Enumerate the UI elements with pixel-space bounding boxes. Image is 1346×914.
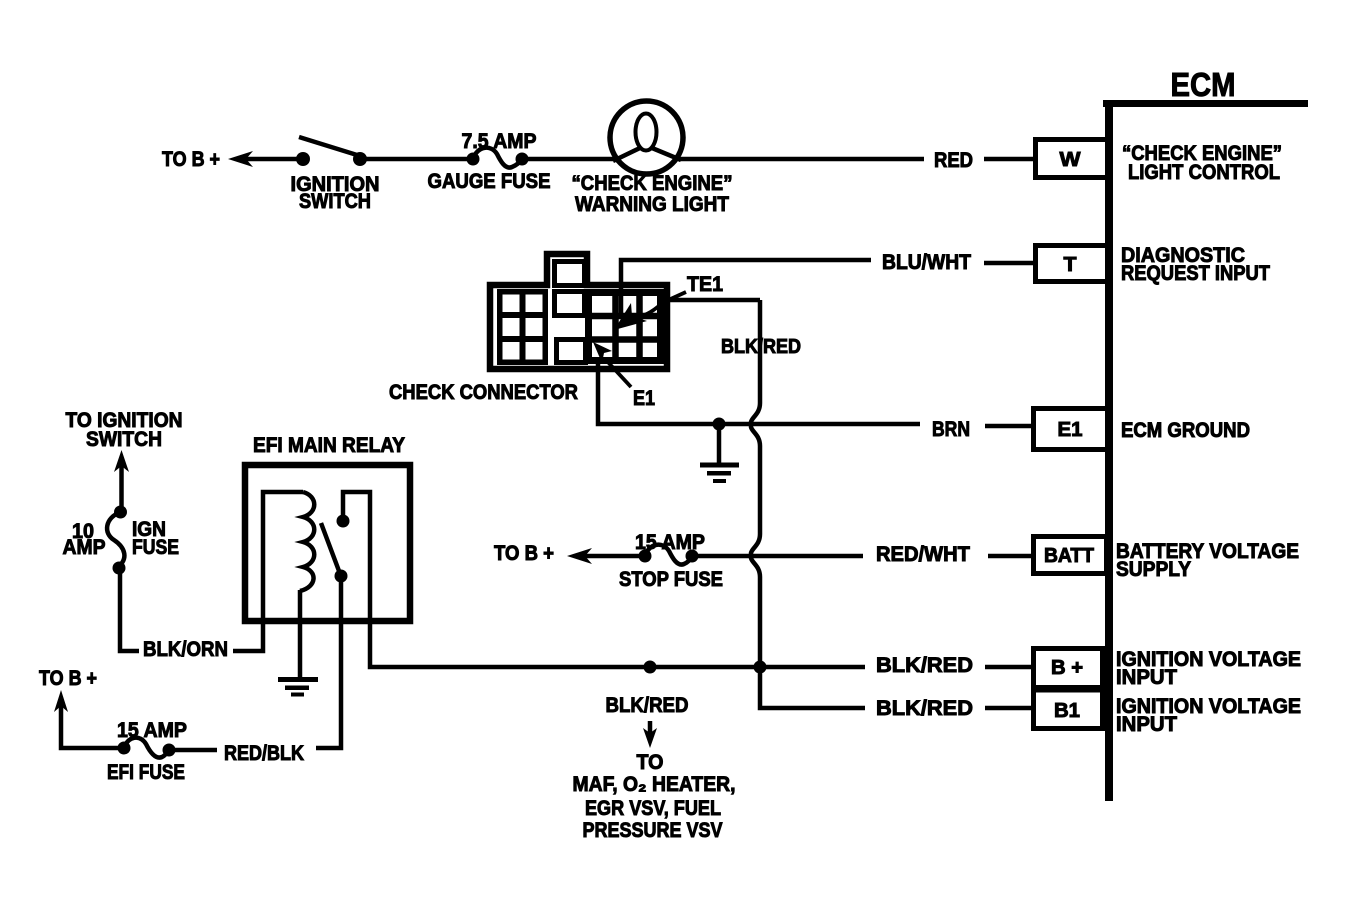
svg-text:CHECK CONNECTOR: CHECK CONNECTOR xyxy=(389,381,578,404)
svg-text:INPUT: INPUT xyxy=(1116,666,1177,689)
wire arrow to IGN fuse xyxy=(119,466,124,512)
wire RED/WHT to BATT box xyxy=(988,554,1033,559)
svg-text:T: T xyxy=(1064,254,1077,276)
svg-text:AMP: AMP xyxy=(63,536,106,559)
junction dot BLK/RED main xyxy=(754,661,767,674)
label IGNITION VOLTAGE INPUT (B+) xyxy=(1116,648,1301,689)
svg-text:W: W xyxy=(1060,149,1081,171)
fuse F3 IGN FUSE 10A xyxy=(63,506,180,575)
wire switch to gauge fuse xyxy=(360,157,473,162)
svg-text:BLK/RED: BLK/RED xyxy=(876,654,973,677)
connector J1 tab pin xyxy=(555,262,585,286)
node TO B+ (EFI fuse feed) xyxy=(39,667,97,712)
wire BLU/WHT horizontal from TE1 drop xyxy=(621,260,871,316)
svg-text:BATT: BATT xyxy=(1044,545,1094,567)
svg-text:BLK/ORN: BLK/ORN xyxy=(143,638,228,661)
connector J1 right pin grid 3x3 xyxy=(589,293,661,361)
ground G2 (relay coil) xyxy=(278,677,318,697)
svg-text:“CHECK ENGINE”: “CHECK ENGINE” xyxy=(572,172,733,195)
connector J1 CHECK CONNECTOR outline xyxy=(490,254,667,369)
svg-text:RED/BLK: RED/BLK xyxy=(224,742,304,765)
wire relay switch to RED/BLK xyxy=(316,576,341,748)
terminal box W xyxy=(1036,140,1110,178)
svg-text:ECM GROUND: ECM GROUND xyxy=(1121,419,1250,442)
terminal box B+ xyxy=(1034,649,1103,688)
svg-text:LIGHT CONTROL: LIGHT CONTROL xyxy=(1128,161,1280,184)
connector J1 middle top pin xyxy=(555,292,585,316)
svg-text:WARNING LIGHT: WARNING LIGHT xyxy=(575,193,729,216)
wire TE1 to BLK/RED drop xyxy=(664,298,760,303)
terminal box T xyxy=(1036,246,1110,282)
svg-text:FUSE: FUSE xyxy=(132,536,179,559)
svg-text:7.5 AMP: 7.5 AMP xyxy=(462,130,537,153)
svg-text:E1: E1 xyxy=(1058,419,1083,441)
fuse F4 EFI FUSE 15A xyxy=(107,719,187,784)
svg-text:PRESSURE VSV: PRESSURE VSV xyxy=(583,819,723,842)
svg-text:SWITCH: SWITCH xyxy=(299,190,371,213)
label IGNITION VOLTAGE INPUT (B1) xyxy=(1116,695,1301,736)
wire arrow to stop fuse xyxy=(585,554,645,559)
wire relay output to B+ junction xyxy=(343,492,865,667)
connector J1 middle bottom pin xyxy=(557,340,586,363)
fuse F2 STOP FUSE 15A xyxy=(619,531,723,591)
svg-text:MAF, O₂ HEATER,: MAF, O₂ HEATER, xyxy=(573,773,736,796)
wire IGN fuse down to BLK/ORN xyxy=(120,568,139,651)
node BLK/RED to loads xyxy=(573,694,736,842)
wire EFI fuse to RED/BLK xyxy=(169,748,217,753)
label DIAGNOSTIC REQUEST INPUT xyxy=(1121,244,1270,285)
svg-text:15 AMP: 15 AMP xyxy=(117,719,187,742)
wire RED to W box xyxy=(984,157,1033,162)
pin TE1 arrowhead xyxy=(614,303,647,330)
svg-text:E1: E1 xyxy=(633,387,655,410)
wire branch to B1 box xyxy=(760,667,865,708)
label CHECK ENGINE LIGHT CONTROL xyxy=(1122,142,1282,184)
terminal box E1 xyxy=(1034,409,1110,450)
connector J1 left pin grid 2x3 xyxy=(500,292,546,363)
node TO B+ (top left feed) xyxy=(162,148,253,171)
svg-text:RED: RED xyxy=(934,149,973,172)
wire B+ to ignition switch xyxy=(246,157,303,162)
relay K1 switch contacts xyxy=(321,515,350,583)
svg-text:EGR VSV, FUEL: EGR VSV, FUEL xyxy=(585,797,721,820)
terminal box BATT xyxy=(1034,537,1107,574)
svg-text:REQUEST INPUT: REQUEST INPUT xyxy=(1121,262,1270,285)
wire gauge fuse to warning light xyxy=(522,157,615,162)
svg-text:SUPPLY: SUPPLY xyxy=(1116,558,1191,581)
switch S1 IGNITION SWITCH xyxy=(291,137,380,213)
wire BLU/WHT to T box xyxy=(984,261,1033,266)
svg-text:TO: TO xyxy=(637,751,664,774)
svg-text:EFI MAIN RELAY: EFI MAIN RELAY xyxy=(253,434,405,457)
fuse F1 GAUGE FUSE 7.5A xyxy=(428,130,551,193)
svg-text:TO B +: TO B + xyxy=(494,542,554,565)
pin E1 label and pointer xyxy=(606,360,655,410)
node TO B+ (stop fuse feed) xyxy=(494,542,592,565)
wire BLK/RED to B1 box xyxy=(985,706,1033,711)
junction dot BLK/RED branch xyxy=(644,661,657,674)
svg-text:EFI FUSE: EFI FUSE xyxy=(107,761,185,784)
relay K1 coil xyxy=(300,492,314,591)
svg-text:B1: B1 xyxy=(1054,700,1080,722)
relay K1 EFI MAIN RELAY box xyxy=(245,434,410,621)
node TO IGNITION SWITCH xyxy=(66,409,183,472)
label BATTERY VOLTAGE SUPPLY xyxy=(1116,540,1299,581)
terminal box B1 xyxy=(1034,690,1103,729)
svg-text:RED/WHT: RED/WHT xyxy=(876,543,970,566)
wire coil to ground xyxy=(298,590,303,678)
ground G1 (check connector E1) xyxy=(700,424,739,483)
wire BLK/RED vertical drop with hops xyxy=(751,300,760,667)
svg-text:BRN: BRN xyxy=(932,418,970,441)
svg-text:TE1: TE1 xyxy=(687,273,723,296)
svg-text:BLK/RED: BLK/RED xyxy=(606,694,689,717)
svg-text:TO B +: TO B + xyxy=(39,667,97,690)
wire stop fuse to BATT xyxy=(692,554,863,559)
svg-text:INPUT: INPUT xyxy=(1116,713,1177,736)
svg-text:15 AMP: 15 AMP xyxy=(635,531,705,554)
wire E1 pin to BRN line xyxy=(598,360,920,424)
pin E1 arrowhead xyxy=(593,342,612,363)
wire BLK/ORN into relay coil xyxy=(233,492,303,651)
junction dot BRN ground xyxy=(713,418,726,431)
ECM U1 outline xyxy=(1103,100,1308,801)
wire B+ to EFI fuse xyxy=(61,706,118,748)
svg-text:STOP FUSE: STOP FUSE xyxy=(619,568,723,591)
svg-text:ECM: ECM xyxy=(1171,66,1236,103)
svg-text:BLK/RED: BLK/RED xyxy=(876,697,973,720)
svg-text:GAUGE FUSE: GAUGE FUSE xyxy=(428,170,551,193)
wire BLK/RED to B+ box xyxy=(985,665,1033,670)
pin TE1 label and pointer xyxy=(629,273,723,319)
wire lamp to W terminal xyxy=(679,157,924,162)
wire BRN to E1 box xyxy=(985,424,1033,429)
svg-text:B +: B + xyxy=(1051,657,1083,679)
svg-text:TO B +: TO B + xyxy=(162,148,220,171)
svg-text:BLU/WHT: BLU/WHT xyxy=(882,251,971,274)
lamp L1 CHECK ENGINE WARNING LIGHT xyxy=(572,101,733,216)
svg-text:SWITCH: SWITCH xyxy=(86,428,162,451)
